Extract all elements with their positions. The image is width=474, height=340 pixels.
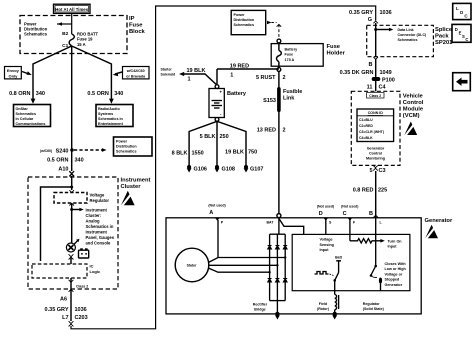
svg-text:225: 225 — [378, 187, 387, 193]
wire through splice with junction — [374, 23, 393, 57]
label: Field (Rotor) — [317, 302, 330, 311]
svg-text:340: 340 — [36, 91, 45, 97]
svg-text:Block: Block — [129, 29, 146, 35]
svg-text:Distribution: Distribution — [234, 18, 255, 22]
svg-text:O: O — [460, 10, 464, 15]
wire: 19 RED from battery to fuse holder — [217, 68, 279, 70]
svg-text:Regulator: Regulator — [363, 302, 380, 306]
svg-text:19 BLK: 19 BLK — [187, 68, 206, 74]
connector C203 pin L7 — [62, 315, 88, 321]
svg-text:Only: Only — [8, 73, 18, 78]
wire label 19 BLK / 1 — [187, 68, 206, 83]
svg-text:2: 2 — [283, 75, 286, 81]
charge indicator lamp — [66, 239, 79, 252]
pin label 5 / C3 — [369, 165, 385, 173]
wire label 19 RED / 1 — [230, 63, 249, 78]
battery — [209, 85, 224, 122]
bridge diodes (bottom row) — [268, 279, 288, 283]
Power Distribution Schematics box (top middle) — [231, 10, 266, 34]
svg-text:175 A: 175 A — [285, 58, 295, 62]
note: Data Link Connector (DLC) Schematics — [398, 28, 428, 42]
svg-text:Hot At All Times: Hot At All Times — [55, 7, 88, 12]
ESD symbol (instrument cluster) — [121, 191, 135, 207]
wire: splice to P100 — [375, 59, 377, 91]
ground G106 — [187, 165, 207, 173]
button: LOC (diagonal) — [453, 3, 471, 19]
svg-text:Monitoring: Monitoring — [366, 156, 385, 160]
svg-text:Holder: Holder — [327, 50, 346, 56]
wire: BAT branch to regulator — [279, 219, 304, 235]
splice S240 junction — [40, 148, 74, 154]
svg-text:C3: C3 — [379, 168, 386, 174]
svg-text:IP: IP — [129, 16, 135, 22]
Envoy Only box — [5, 67, 22, 79]
svg-text:C4: C4 — [379, 85, 387, 91]
svg-text:Voltage: Voltage — [320, 238, 333, 242]
svg-text:D: D — [319, 211, 323, 217]
label: Starter Solenoid — [161, 68, 176, 77]
svg-text:(Solid State): (Solid State) — [363, 307, 385, 311]
wire label 0.35 GRY 1036 (top right) — [349, 10, 392, 16]
svg-text:Power: Power — [234, 13, 246, 17]
L circuit switch (closes with low/high voltage) — [370, 265, 382, 291]
note: Closes With Low or High Voltage or Stopped Generator — [385, 262, 407, 287]
wire through voltage regulator — [69, 190, 74, 242]
svg-text:Connector (DLC): Connector (DLC) — [398, 33, 428, 37]
svg-text:Systems: Systems — [98, 112, 113, 116]
Splice Pack SP201 dashed box — [367, 25, 434, 56]
Instrument Cluster dashed box — [28, 177, 118, 289]
w/C42/C60 or Bravada box — [123, 67, 150, 79]
stator phase wires to rectifier bridge — [208, 256, 286, 273]
terminal B / L — [369, 211, 382, 266]
svg-text:Cluster:: Cluster: — [86, 213, 102, 218]
svg-text:2: 2 — [283, 128, 286, 134]
svg-text:Entertainment: Entertainment — [98, 122, 124, 126]
wire label 0.8 ORN 340 — [9, 91, 45, 97]
wire: split into three branches below fuse — [33, 46, 111, 150]
wire label 13 RED / 2 — [257, 128, 286, 134]
note: Voltage Sensing Input — [320, 238, 334, 252]
svg-text:Logic: Logic — [90, 269, 101, 274]
svg-text:C: C — [343, 211, 347, 217]
terminal P label + wire — [218, 220, 224, 258]
wire: long loop from C203 around left/top to splice G — [71, 6, 376, 329]
svg-text:Splice: Splice — [435, 27, 453, 33]
svg-text:Control: Control — [403, 100, 424, 106]
svg-text:A10: A10 — [58, 166, 68, 172]
svg-text:Field: Field — [319, 302, 327, 306]
svg-text:1049: 1049 — [380, 70, 392, 76]
svg-text:0.5 ORN: 0.5 ORN — [87, 91, 108, 97]
connector marks at A10 — [69, 171, 74, 176]
svg-text:1: 1 — [230, 72, 233, 78]
svg-text:CONN ID: CONN ID — [368, 111, 384, 115]
svg-text:Power: Power — [116, 140, 128, 144]
svg-text:Instrument: Instrument — [121, 178, 151, 184]
svg-text:Low or High: Low or High — [385, 267, 407, 271]
label: IP Fuse Block — [129, 16, 146, 35]
terminal C (not used) / F — [341, 205, 358, 241]
svg-text:G108: G108 — [222, 167, 235, 173]
ESD symbol (VCM) — [404, 122, 417, 136]
svg-text:C1=BLU: C1=BLU — [359, 118, 373, 122]
connector mark at G — [373, 21, 378, 23]
PWM square wave symbol — [315, 272, 334, 276]
label: Splice Pack SP201 — [435, 27, 453, 46]
svg-text:11: 11 — [367, 85, 373, 91]
pin label 11 / C4 — [367, 85, 387, 91]
svg-text:C: C — [465, 37, 468, 42]
svg-text:1: 1 — [188, 77, 191, 83]
Power Distribution Schematics box (mid-left) — [114, 137, 153, 156]
svg-text:Panel, Gauges: Panel, Gauges — [86, 235, 115, 240]
svg-text:Schematics: Schematics — [16, 112, 37, 116]
svg-text:Battery: Battery — [285, 48, 299, 52]
Batt contact and field switch — [333, 256, 342, 282]
svg-text:and Console: and Console — [86, 241, 112, 246]
svg-text:Bridge: Bridge — [254, 308, 265, 312]
wire: S240 down to instrument cluster — [71, 150, 73, 171]
arrow: Bravada box to wire — [113, 72, 123, 76]
wire: 19 BLK to starter solenoid — [182, 74, 217, 85]
svg-text:Class 2: Class 2 — [369, 94, 381, 98]
svg-text:Data Link: Data Link — [398, 28, 414, 32]
svg-text:SP201: SP201 — [435, 40, 453, 46]
svg-text:Vehicle: Vehicle — [403, 93, 424, 99]
BAT terminal ring — [267, 214, 281, 225]
svg-text:w/C42/C60: w/C42/C60 — [126, 69, 145, 73]
wire: BAT down through bridge — [278, 218, 280, 235]
svg-text:Link: Link — [283, 95, 295, 101]
svg-text:Schematics: Schematics — [24, 32, 48, 37]
label: Regulator (Solid State) — [363, 302, 385, 311]
svg-text:D: D — [455, 27, 458, 32]
svg-text:P100: P100 — [382, 77, 395, 83]
wires: battery to grounds (fan of three) — [189, 121, 246, 165]
ground G108 — [215, 165, 235, 173]
svg-text:C4=BLK: C4=BLK — [359, 136, 373, 140]
pin label B — [369, 57, 378, 68]
wire label 0.5 ORN 340 (below S240) — [47, 158, 84, 164]
dashed arrow: fuse holder to Power Distribution Schematics — [267, 21, 281, 39]
connector marks below lamp — [69, 254, 74, 259]
svg-text:Rectifier: Rectifier — [253, 303, 268, 307]
arrow to starter solenoid — [179, 72, 184, 76]
note: Generator Control Monitoring — [366, 146, 385, 160]
IC Logic dashed box — [32, 264, 101, 279]
Radio/Audio Systems Schematics in Entertainment box — [96, 105, 133, 127]
label: Rectifier Bridge — [253, 303, 268, 312]
svg-text:B2: B2 — [62, 31, 68, 37]
svg-text:Radio/Audio: Radio/Audio — [98, 107, 120, 111]
rectifier bridge — [270, 234, 286, 300]
svg-text:Analog: Analog — [86, 219, 101, 224]
svg-text:Schematics in: Schematics in — [86, 224, 114, 229]
arrow: Envoy Only to wire — [22, 71, 32, 75]
battery fuse 175 A — [277, 43, 299, 68]
svg-text:B: B — [369, 211, 373, 217]
svg-text:750: 750 — [248, 149, 257, 155]
svg-text:8 BLK: 8 BLK — [172, 150, 188, 156]
svg-text:15 A: 15 A — [77, 42, 86, 47]
svg-text:S240: S240 — [56, 148, 69, 154]
wire from lamp into IC logic — [70, 257, 72, 264]
svg-text:1550: 1550 — [192, 150, 204, 156]
svg-text:Solenoid: Solenoid — [161, 73, 176, 77]
svg-text:1036: 1036 — [75, 307, 87, 313]
svg-text:Batt: Batt — [335, 256, 343, 260]
svg-text:B: B — [369, 62, 373, 68]
svg-text:13 RED: 13 RED — [257, 128, 276, 134]
arrowhead into OnStar box — [31, 99, 36, 104]
svg-text:C3=CLR (WHT): C3=CLR (WHT) — [359, 130, 384, 134]
svg-text:Schematics: Schematics — [398, 38, 418, 42]
svg-text:Fusible: Fusible — [283, 89, 302, 95]
fuse RDO BATT Fuse 19 15A (B2/C1) — [69, 34, 74, 46]
svg-text:Distribution: Distribution — [116, 145, 137, 149]
ground G107 — [244, 165, 264, 173]
svg-text:(Not used): (Not used) — [208, 204, 225, 208]
svg-text:Instrument: Instrument — [86, 230, 108, 235]
svg-text:Input: Input — [388, 245, 398, 249]
note: Power Distribution Schematics (in fuse block) — [24, 22, 48, 37]
svg-text:IC: IC — [90, 264, 94, 269]
svg-text:Regulator: Regulator — [90, 198, 110, 203]
svg-text:Pack: Pack — [435, 33, 449, 39]
button: back arrow — [453, 73, 471, 91]
CONN ID table — [357, 109, 394, 142]
button: DESC (diagonal) — [452, 24, 471, 42]
value label: RDO BATT Fuse 19 15 A — [77, 32, 99, 47]
svg-text:5 BLK: 5 BLK — [200, 134, 216, 140]
IP Fuse Block dashed box — [20, 16, 127, 54]
bridge diodes (top row) — [268, 246, 288, 250]
svg-text:0.35 DK GRN: 0.35 DK GRN — [340, 70, 374, 76]
battery warning icon — [79, 248, 89, 258]
wire: battery stub to bus — [216, 69, 218, 84]
label: Fuse Holder — [327, 44, 346, 57]
svg-text:Voltage: Voltage — [90, 193, 105, 198]
svg-text:Fuse: Fuse — [327, 44, 341, 50]
wire: VCM C3 to generator B — [375, 171, 377, 218]
svg-text:Schematics: Schematics — [116, 150, 137, 154]
wire: into cluster, junction to left branch — [41, 176, 74, 261]
svg-text:Cluster: Cluster — [121, 184, 142, 190]
voltage regulator box (solid state) — [292, 234, 410, 290]
wire label 0.5 ORN 340 — [87, 91, 123, 97]
svg-text:Fuse: Fuse — [285, 53, 294, 57]
wire label 19 BLK / 750 — [225, 149, 257, 155]
label: Generator + ESD symbol — [425, 218, 453, 240]
fusible link S153 — [263, 87, 302, 112]
svg-text:C203: C203 — [75, 315, 88, 321]
svg-text:19 BLK: 19 BLK — [225, 149, 244, 155]
field (rotor) coil — [332, 280, 338, 319]
stator — [175, 248, 209, 282]
svg-text:5 RUST: 5 RUST — [256, 75, 276, 81]
svg-text:G: G — [368, 17, 372, 23]
wire label 0.8 RED 225 — [353, 187, 387, 193]
wire: A6 to C203 — [70, 296, 72, 321]
wire label 0.35 GRY 1036 — [45, 307, 87, 313]
terminal A (not used) — [208, 204, 225, 221]
dashed arrow: S240 to Power Distribution Schematics — [74, 148, 107, 152]
svg-text:S153: S153 — [263, 98, 276, 104]
svg-text:0.8 RED: 0.8 RED — [353, 187, 374, 193]
svg-text:Schematics: Schematics — [234, 23, 255, 27]
Vehicle Control Module dashed box — [351, 91, 400, 165]
svg-text:Instrument: Instrument — [86, 208, 108, 213]
pass-through connector P100 — [372, 77, 395, 83]
Voltage Regulator dashed box — [54, 193, 109, 204]
svg-text:Battery: Battery — [227, 91, 247, 97]
svg-text:250: 250 — [220, 134, 229, 140]
wire: fuse holder down to generator BAT — [278, 71, 280, 214]
svg-text:1036: 1036 — [380, 10, 392, 16]
fuse holder box — [271, 39, 323, 71]
svg-text:340: 340 — [75, 158, 84, 164]
Generator box — [166, 218, 421, 314]
label: Hot At All Times header — [54, 4, 91, 13]
svg-text:G107: G107 — [250, 167, 263, 173]
svg-text:(Not used): (Not used) — [341, 205, 358, 209]
svg-text:(Rotor): (Rotor) — [317, 307, 330, 311]
svg-text:Starter: Starter — [161, 68, 173, 72]
svg-text:C2=RED: C2=RED — [359, 124, 373, 128]
svg-text:Fuse: Fuse — [129, 23, 143, 29]
wire label 5 BLK / 250 — [200, 134, 229, 140]
svg-text:340: 340 — [114, 91, 123, 97]
svg-text:Stopped: Stopped — [385, 278, 400, 282]
wire: from Hot At All Times down to fuse — [71, 13, 73, 34]
Class 2 label (VCM) — [367, 93, 385, 98]
wire label 8 BLK / 1550 — [172, 150, 204, 156]
svg-text:BAT: BAT — [267, 220, 275, 224]
svg-text:Voltage or: Voltage or — [385, 272, 403, 276]
svg-text:Schematics in: Schematics in — [98, 117, 124, 121]
svg-text:Closes With: Closes With — [385, 262, 407, 266]
wire label 0.35 DK GRN 1049 — [340, 70, 392, 76]
svg-text:G106: G106 — [194, 167, 207, 173]
svg-text:in Cellular: in Cellular — [16, 117, 34, 121]
svg-text:Sensing: Sensing — [320, 243, 334, 247]
svg-text:Turn On: Turn On — [388, 240, 403, 244]
svg-text:Generator: Generator — [425, 218, 453, 224]
svg-text:(Not used): (Not used) — [317, 205, 334, 209]
svg-text:Communications: Communications — [16, 122, 46, 126]
svg-text:5: 5 — [369, 168, 372, 174]
arrowhead into Radio box — [109, 99, 114, 104]
label: Instrument Cluster — [121, 178, 151, 191]
arrow: to power distribution schematics (left) — [57, 22, 72, 26]
svg-text:Module: Module — [403, 106, 424, 112]
svg-text:Generator: Generator — [385, 283, 403, 287]
svg-text:Control: Control — [369, 151, 382, 155]
svg-text:(VCM): (VCM) — [403, 113, 420, 119]
svg-text:0.5 ORN: 0.5 ORN — [47, 158, 68, 164]
svg-text:L7: L7 — [62, 315, 68, 321]
svg-text:Input: Input — [320, 248, 330, 252]
OnStar Schematics in Cellular Communications box — [14, 105, 51, 127]
svg-text:0.8 ORN: 0.8 ORN — [9, 91, 30, 97]
junction arrow: to Instrument Cluster analog schematics note — [70, 208, 115, 246]
wire label 5 RUST / 2 — [256, 75, 286, 81]
svg-text:19 RED: 19 RED — [230, 63, 249, 69]
wire out of IC logic / Class 2 — [69, 278, 89, 296]
svg-text:Stator: Stator — [187, 263, 197, 267]
svg-text:Class 2: Class 2 — [76, 284, 88, 288]
svg-text:OnStar: OnStar — [16, 107, 29, 111]
svg-text:L: L — [456, 6, 459, 11]
terminal D (not used) / S — [317, 205, 334, 235]
svg-text:0.35 GRY: 0.35 GRY — [349, 10, 373, 16]
resistor to Turn On Input — [350, 239, 402, 249]
wire: bridge to ground bus with junction — [275, 301, 280, 320]
svg-text:0.35 GRY: 0.35 GRY — [45, 307, 69, 313]
svg-text:Generator: Generator — [367, 146, 385, 150]
svg-text:(w/C60): (w/C60) — [40, 149, 52, 153]
connector marks C203 — [69, 321, 74, 326]
svg-text:A6: A6 — [60, 297, 67, 303]
svg-text:or Bravada: or Bravada — [126, 74, 146, 78]
svg-text:A: A — [209, 210, 213, 216]
label: Vehicle Control Module (VCM) — [403, 93, 424, 119]
